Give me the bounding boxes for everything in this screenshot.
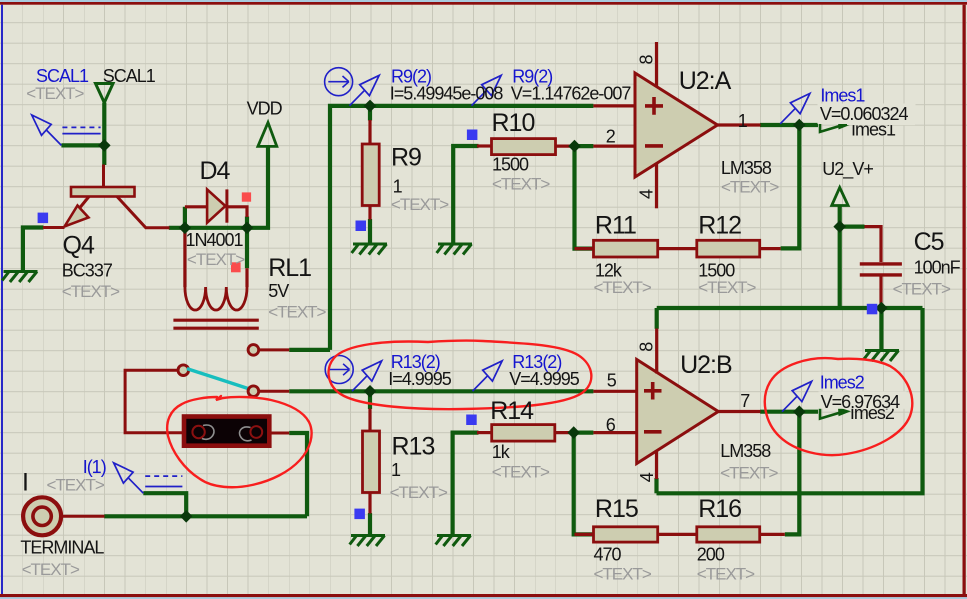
resistor R13 top lead xyxy=(368,409,371,432)
op-amp U2:B plus xyxy=(644,382,662,400)
svg-text:SCAL1: SCAL1 xyxy=(103,66,156,86)
capacitor C5 bottom lead xyxy=(879,277,882,308)
tag handle D4 top (red) xyxy=(242,192,251,201)
frame: top red border xyxy=(0,2,967,5)
power terminal U2_V+ arrow xyxy=(832,188,848,206)
frame: left blue sheet edge xyxy=(1,5,3,594)
wire Q4 collector net to VDD stem xyxy=(169,146,268,227)
node relay right / VDD xyxy=(241,222,254,235)
resistor R15 left lead xyxy=(575,533,594,536)
resistor R11-R12 link xyxy=(658,247,697,250)
wire R10 left leg to ground xyxy=(453,146,478,243)
relay contact bottom wire xyxy=(258,390,289,393)
ground (Q4 emitter) xyxy=(2,272,37,283)
svg-text:LM358: LM358 xyxy=(720,441,771,461)
wire top contact to R9 row riser (drawn above) xyxy=(289,348,330,352)
op-amp U2:B pin5 lead xyxy=(593,390,638,393)
resistor R12 body xyxy=(697,240,760,257)
svg-text:U2:A: U2:A xyxy=(679,67,732,95)
wire C5 top branch xyxy=(840,225,865,229)
relay contact top circle xyxy=(248,345,259,356)
wire Imes1 stub xyxy=(799,123,818,127)
voltage probe R13(2) pointer xyxy=(473,361,503,391)
resistor R14 left lead xyxy=(477,431,492,434)
svg-text:<TEXT>: <TEXT> xyxy=(492,463,550,482)
svg-text:TERMINAL: TERMINAL xyxy=(20,537,104,557)
svg-text:SCAL1: SCAL1 xyxy=(36,66,89,86)
resistor R10 left lead xyxy=(477,144,492,147)
svg-text:<TEXT>: <TEXT> xyxy=(391,195,449,214)
annotation circle around Imes2 xyxy=(765,358,912,455)
op-amp U2:B minus xyxy=(644,430,662,434)
current probe R13(2) circle xyxy=(325,356,353,384)
svg-text:7: 7 xyxy=(740,391,750,411)
wire R11 left riser xyxy=(575,146,594,249)
node R9 top xyxy=(364,100,377,113)
ground (R13) xyxy=(350,536,385,547)
terminal SCAL1 (input triangle) xyxy=(96,84,114,103)
relay RL1 coil loops xyxy=(185,287,247,310)
svg-text:1: 1 xyxy=(393,177,403,197)
capacitor C5 top lead xyxy=(865,227,882,262)
svg-text:<TEXT>: <TEXT> xyxy=(698,278,756,297)
wire SCAL1 probe wire xyxy=(61,143,104,147)
svg-text:<TEXT>: <TEXT> xyxy=(187,250,245,269)
svg-text:U2_V+: U2_V+ xyxy=(822,159,873,180)
node R13 top xyxy=(364,385,377,398)
svg-text:8: 8 xyxy=(637,55,657,65)
svg-text:Q4: Q4 xyxy=(63,232,95,260)
resistor R13 bottom lead xyxy=(368,493,371,514)
op-amp U2:A output lead xyxy=(718,123,761,126)
tag handle Q4 (blue) xyxy=(38,213,49,224)
svg-text:5: 5 xyxy=(607,371,617,391)
transistor Q4 emitter pin wire xyxy=(43,226,65,229)
node SCAL1 junction xyxy=(98,139,111,152)
wire C5 bottom node to ground xyxy=(879,308,883,350)
diode D4 body xyxy=(207,189,225,222)
svg-text:<TEXT>: <TEXT> xyxy=(697,565,755,584)
wire label hook Imes2 xyxy=(820,405,840,418)
relay contact bottom circle xyxy=(248,386,259,397)
op-amp U2:A minus xyxy=(645,144,663,148)
resistor R11 body xyxy=(594,240,658,257)
wire relay right leg upper xyxy=(245,228,249,268)
node U2A output xyxy=(793,119,806,132)
value V=6.97634 background xyxy=(819,392,907,409)
op-amp U2:A plus xyxy=(645,97,663,115)
transistor Q4 collector lead xyxy=(117,197,170,228)
op-amp U2:B pin8 lead xyxy=(655,329,658,374)
relay moving blade (cyan) xyxy=(187,369,250,390)
node collector/relay left xyxy=(179,222,192,235)
svg-text:BC337: BC337 xyxy=(62,261,113,281)
ground (R9) xyxy=(352,244,387,255)
terminal I outer ring xyxy=(23,497,61,535)
relay RL1 core bars xyxy=(173,320,258,328)
svg-text:R11: R11 xyxy=(595,211,636,239)
wire right rail down and pin4 return xyxy=(657,308,923,493)
svg-text:U2:B: U2:B xyxy=(680,351,732,379)
wire U2B pin4 drop xyxy=(654,478,658,493)
voltage probe SCAL1 xyxy=(32,115,62,145)
current probe R13(2) pointer xyxy=(352,361,382,391)
wire I(1) probe stub xyxy=(143,493,186,516)
wire Q4 emitter net to ground xyxy=(23,228,44,272)
svg-text:VDD: VDD xyxy=(247,99,283,119)
svg-text:8: 8 xyxy=(637,342,657,352)
svg-text:<TEXT>: <TEXT> xyxy=(893,280,951,299)
current probe R9(2) pointer xyxy=(350,75,380,105)
svg-text:R16: R16 xyxy=(698,495,741,523)
svg-text:LM358: LM358 xyxy=(721,158,772,178)
power terminal VDD arrow xyxy=(258,123,277,147)
relay pole circle xyxy=(178,365,189,376)
op-amp U2:A body xyxy=(635,73,718,177)
tag handle R9 (blue) xyxy=(356,221,367,232)
shunt box left gray hook xyxy=(202,425,214,439)
voltage probe Imes1 pointer xyxy=(780,93,810,123)
svg-text:R15: R15 xyxy=(595,495,638,523)
svg-text:V=6.97634: V=6.97634 xyxy=(821,392,901,412)
wire U2B output to node xyxy=(760,410,799,414)
relay RL1 coil right leg xyxy=(245,268,248,287)
svg-text:R13: R13 xyxy=(392,433,435,461)
diode D4 anode lead xyxy=(185,205,207,208)
diode D4 cathode bar xyxy=(225,189,228,222)
voltage probe R9(2) pointer xyxy=(472,75,502,105)
wire diode anode riser xyxy=(183,207,187,228)
svg-text:I(1): I(1) xyxy=(83,457,106,477)
svg-text:<TEXT>: <TEXT> xyxy=(594,278,652,297)
wire U2B pin8 riser xyxy=(655,308,659,329)
wire R9 bottom to ground xyxy=(368,219,372,244)
svg-text:<TEXT>: <TEXT> xyxy=(26,84,84,103)
svg-text:<TEXT>: <TEXT> xyxy=(492,175,550,194)
node C5 bottom / rail xyxy=(875,302,888,315)
wire R9 top stub xyxy=(368,106,372,121)
voltage probe Imes2 pointer xyxy=(782,381,812,411)
shunt black box body xyxy=(184,417,269,446)
shunt box right contact circle xyxy=(250,426,262,438)
svg-text:1N4001: 1N4001 xyxy=(186,230,244,250)
svg-text:6: 6 xyxy=(606,415,616,435)
frame: bottom light blue strip xyxy=(0,597,967,599)
svg-text:R9: R9 xyxy=(391,144,421,172)
wire U2A output to node xyxy=(760,123,799,127)
svg-text:Imes1: Imes1 xyxy=(820,85,865,105)
frame: right red border xyxy=(963,5,966,594)
svg-text:1: 1 xyxy=(738,111,748,131)
ground (C5 node) xyxy=(864,351,899,362)
op-amp U2:A pin8 lead xyxy=(655,42,658,87)
wire V+ rail U2B pin8 to right rail xyxy=(657,306,923,310)
svg-text:5V: 5V xyxy=(268,281,289,301)
svg-text:<TEXT>: <TEXT> xyxy=(720,464,778,483)
diode D4 cathode lead xyxy=(227,207,247,217)
svg-text:I=5.49945e-008: I=5.49945e-008 xyxy=(390,83,504,103)
wire R14 right node to pin6 xyxy=(574,431,594,435)
wire R13 top stub xyxy=(368,391,372,409)
tag handle C5 node (blue) xyxy=(867,304,878,315)
relay RL1 coil left leg xyxy=(183,228,186,287)
svg-text:D4: D4 xyxy=(200,157,231,185)
svg-text:1k: 1k xyxy=(492,442,511,462)
node U2B output xyxy=(793,405,806,418)
wire R14 node down to R15 xyxy=(574,433,594,535)
wire U2_V+ stem xyxy=(838,206,842,309)
transistor Q4 base pin xyxy=(102,165,105,188)
resistor R14 body xyxy=(492,425,555,442)
wire diode cathode riser xyxy=(245,217,249,228)
tag handle D4 bottom (red) xyxy=(231,262,241,272)
wire bottom contact row to U2B pin5 xyxy=(289,389,593,393)
svg-text:<TEXT>: <TEXT> xyxy=(268,303,326,322)
probe I(1) reference dashes xyxy=(145,475,182,477)
wire U2B feedback vertical to R16 xyxy=(785,412,800,535)
terminal I lead xyxy=(62,515,105,518)
value V=0.060324 background xyxy=(818,104,916,125)
wire Imes2 stub xyxy=(799,410,818,414)
shunt box right lead xyxy=(269,432,289,435)
wire R9 row horizontal xyxy=(330,106,593,350)
op-amp U2:B pin6 lead xyxy=(593,431,638,434)
resistor R10 right lead xyxy=(556,145,575,148)
shunt box right gray hook xyxy=(240,427,252,441)
wire node to Q4 base xyxy=(102,145,106,165)
svg-text:R14: R14 xyxy=(490,397,534,425)
node R10/pin2 xyxy=(568,140,581,153)
tag handle R14 (blue) xyxy=(466,415,477,426)
resistor R15 body xyxy=(594,527,658,542)
resistor R14 right lead xyxy=(555,431,574,434)
node R14/pin6 xyxy=(567,426,580,439)
frame: top light blue strip xyxy=(0,0,967,2)
svg-text:<TEXT>: <TEXT> xyxy=(721,178,779,197)
wire label hook Imes1 xyxy=(820,119,840,132)
op-amp U2:B pin4 lead xyxy=(655,450,658,479)
resistor R16 right lead xyxy=(760,533,785,536)
node terminal row xyxy=(180,510,193,523)
svg-text:<TEXT>: <TEXT> xyxy=(594,565,652,584)
svg-text:<TEXT>: <TEXT> xyxy=(62,282,120,301)
resistor R10 body xyxy=(492,139,556,155)
svg-text:R10: R10 xyxy=(492,109,535,137)
annotation circle around R13(2) row xyxy=(329,341,592,410)
current probe R9(2) circle xyxy=(325,68,353,96)
op-amp U2:B body xyxy=(637,360,719,464)
relay contact top wire xyxy=(258,348,289,351)
resistor R13 body xyxy=(363,431,380,493)
annotation circle around shunt box xyxy=(167,396,311,487)
tag handle R10 (blue) xyxy=(467,130,478,141)
wire R14 left leg to ground xyxy=(453,433,479,535)
relay pole wire to shunt box xyxy=(125,370,182,433)
svg-text:1500: 1500 xyxy=(492,155,529,175)
svg-text:100nF: 100nF xyxy=(914,257,961,277)
svg-text:V=1.14762e-007: V=1.14762e-007 xyxy=(511,83,632,103)
current probe I(1) pointer xyxy=(114,463,144,493)
node U2_V+ / C5 xyxy=(833,220,846,233)
ground (R14) xyxy=(436,536,471,547)
frame: bottom red border xyxy=(0,594,967,597)
svg-text:2: 2 xyxy=(606,127,616,147)
terminal I inner ring xyxy=(33,507,51,525)
wire terminal row xyxy=(104,514,307,518)
transistor Q4 emitter lead with arrow xyxy=(80,197,89,208)
svg-text:470: 470 xyxy=(594,545,622,565)
op-amp U2:A pin3 lead xyxy=(593,104,636,107)
svg-text:<TEXT>: <TEXT> xyxy=(390,483,448,502)
svg-text:<TEXT>: <TEXT> xyxy=(22,560,80,579)
svg-text:V=4.9995: V=4.9995 xyxy=(509,369,580,389)
svg-text:Imes2: Imes2 xyxy=(820,372,865,392)
svg-text:I: I xyxy=(22,469,28,497)
wire SCAL1 terminal stem xyxy=(102,103,106,146)
resistor R15-R16 link xyxy=(658,533,697,536)
op-amp U2:B output lead xyxy=(718,410,760,413)
resistor R16 body xyxy=(697,527,760,542)
capacitor C5 plates xyxy=(860,264,902,275)
wire R13 bottom to ground xyxy=(368,513,372,535)
ground (R10) xyxy=(437,244,472,255)
resistor R11 left lead xyxy=(575,247,594,250)
shunt box left contact circle xyxy=(192,426,204,438)
svg-text:RL1: RL1 xyxy=(268,254,311,282)
svg-text:I=4.9995: I=4.9995 xyxy=(388,369,452,389)
resistor R12 right lead xyxy=(760,247,781,250)
svg-text:R12: R12 xyxy=(698,211,741,239)
wire U2A feedback vertical xyxy=(781,125,800,248)
wire black box right to terminal row xyxy=(289,433,307,516)
resistor R9 top lead xyxy=(368,120,371,144)
svg-text:4: 4 xyxy=(637,189,657,199)
probe SCAL1 reference dashes xyxy=(62,126,100,128)
tag handle R13 (blue) xyxy=(354,509,365,519)
svg-text:C5: C5 xyxy=(914,228,944,256)
svg-text:4: 4 xyxy=(637,472,657,482)
wire R10 right to node xyxy=(575,144,594,148)
svg-text:<TEXT>: <TEXT> xyxy=(47,475,105,494)
op-amp U2:A pin2 lead xyxy=(593,145,636,148)
op-amp U2:A pin4 lead xyxy=(655,164,658,209)
resistor R9 body xyxy=(362,144,379,206)
transistor Q4 base plate xyxy=(71,187,135,197)
svg-text:200: 200 xyxy=(697,545,725,565)
resistor R9 bottom lead xyxy=(368,206,371,220)
svg-text:V=0.060324: V=0.060324 xyxy=(820,104,909,124)
svg-text:1: 1 xyxy=(391,460,401,480)
